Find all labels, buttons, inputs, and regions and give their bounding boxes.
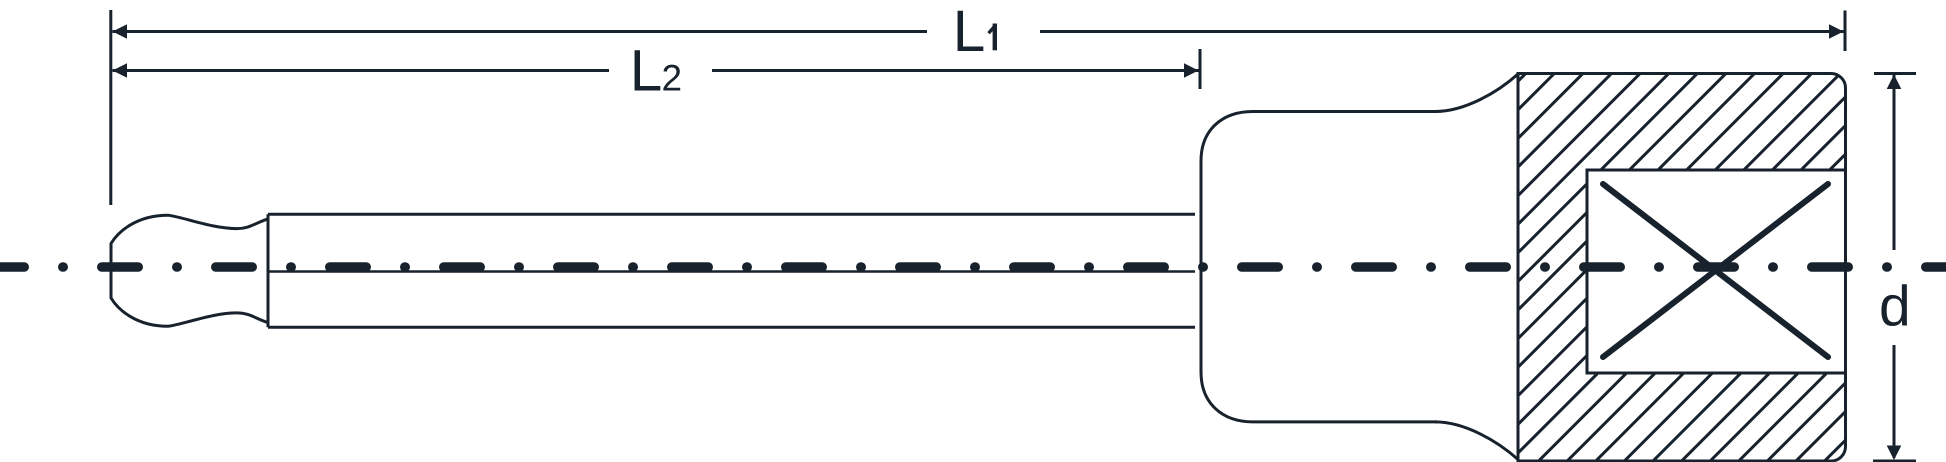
ball/shaft transition edge — [267, 214, 270, 327]
square drive hole — [1587, 170, 1846, 373]
dimension L1 extension line right — [1844, 11, 1847, 52]
hex shaft middle edge — [268, 270, 1195, 273]
socket head cross-section square — [1518, 74, 1846, 462]
hex shaft top edge — [268, 213, 1195, 216]
svg-text:2: 2 — [662, 58, 683, 99]
svg-text:L: L — [630, 39, 663, 104]
dimension L1 extension line left — [109, 10, 112, 205]
dimension L2 line — [113, 63, 1199, 78]
socket head outline — [1518, 74, 1846, 462]
dimension d line — [1873, 74, 1916, 462]
label L1 — [953, 0, 997, 64]
centerline (dash-dot axis) — [0, 262, 1946, 272]
label L2 — [630, 39, 682, 104]
hex shaft bottom edge — [268, 326, 1195, 329]
ball end of hex bit — [111, 215, 268, 326]
svg-text:L: L — [953, 0, 986, 64]
socket neck S-curve bottom — [1435, 422, 1518, 460]
socket body outline — [1201, 112, 1437, 422]
svg-text:d: d — [1879, 275, 1911, 339]
dimension L2 extension line right — [1199, 49, 1202, 89]
hatching — [1126, 0, 1946, 462]
drive hole cross mark — [1603, 184, 1828, 357]
socket neck S-curve top — [1435, 74, 1518, 112]
dimension L1 line — [113, 24, 1844, 39]
